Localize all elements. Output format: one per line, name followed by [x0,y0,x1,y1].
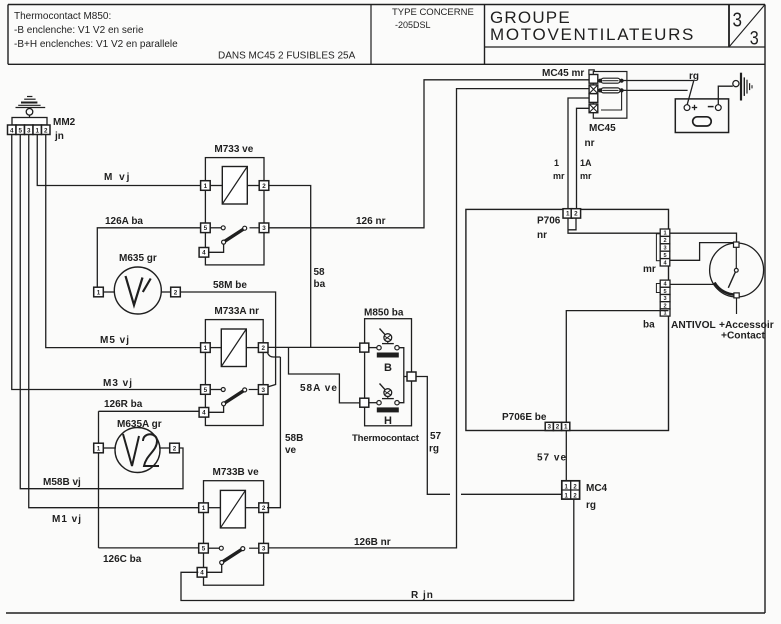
svg-text:1: 1 [204,345,208,352]
svg-text:2: 2 [574,211,578,218]
svg-text:2: 2 [174,289,178,296]
svg-text:R jn: R jn [411,590,434,601]
wire ba strip to antivol rotor [670,283,716,285]
svg-text:M850 ba: M850 ba [364,308,404,319]
relay M733 coil [222,167,247,205]
title GROUPE MOTOVENTILATEURS [485,46,766,48]
connector MC4 [562,481,580,499]
motor V1 symbol text [126,276,143,305]
relay M733 outline [205,158,264,265]
wire 58B ve (M733A.2 to M733B.2) [268,353,281,357]
battery cell oval [693,117,712,126]
thermocontact internal right bus [399,348,404,403]
svg-text:1: 1 [564,424,568,431]
relay M733 pin 4 [199,248,209,258]
svg-text:58: 58 [314,267,326,278]
ground (battery) [733,81,739,87]
svg-text:ANTIVOL: ANTIVOL [671,320,716,331]
wire 126B nr (M733B.3 up to MC45 fuse 2) [268,89,589,548]
connector strip mr (1 2 3 5 4) [656,234,660,261]
antivol stem [735,247,737,268]
antivol center pivot [734,268,738,272]
antivol rotor arm [728,272,735,288]
battery [675,99,728,133]
svg-text:57: 57 [430,431,442,442]
svg-text:B: B [384,362,392,374]
thermocontact B contacts [369,347,377,349]
svg-text:nr: nr [585,138,595,149]
svg-text:1: 1 [97,289,101,296]
fuse box MC45 [593,72,627,119]
svg-text:3: 3 [750,29,759,50]
svg-text:3: 3 [27,127,31,134]
svg-text:126 nr: 126 nr [356,216,386,227]
svg-text:58M be: 58M be [213,280,247,291]
svg-text:M3 vj: M3 vj [103,378,133,389]
ignition switch ANTIVOL circle [710,243,764,297]
svg-text:126R ba: 126R ba [104,399,143,410]
svg-text:126C ba: 126C ba [103,554,142,565]
antivol top contact [734,242,740,247]
svg-text:2: 2 [556,424,560,431]
svg-text:jn: jn [54,131,64,142]
svg-text:+Accessoir: +Accessoir [719,320,774,331]
svg-text:+Contact: +Contact [721,331,765,342]
antivol bottom contact [734,293,739,298]
svg-text:4: 4 [202,250,206,257]
wire mr.4 to antivol contact [670,243,734,261]
svg-text:4: 4 [200,570,204,577]
svg-text:1: 1 [664,311,667,317]
svg-text:4: 4 [202,410,206,417]
svg-text:MOTOVENTILATEURS: MOTOVENTILATEURS [490,25,695,44]
wire battery - to ground [718,86,733,105]
junction box P706 outline [466,209,669,430]
wire 57 ve (P706E.1 to MC4) [565,431,567,481]
svg-text:mr: mr [643,264,656,275]
wire M1 vj (MM2.3 to M733B.1) [29,135,199,508]
relay M733A pin 4 [199,408,209,418]
wire fuse F2 to battery + [622,89,688,91]
relay M733 internal coil wires [210,185,222,187]
svg-text:2: 2 [262,505,266,512]
relay M733 pin 2 [259,181,269,191]
wire M vj (MM2.1 to M733.1) [37,135,200,186]
svg-text:-B+H enclenches: V1 V2 en para: -B+H enclenches: V1 V2 en parallele [14,39,178,50]
relay M733B pin 1 [199,503,209,513]
relay M733 pin4 link [208,244,223,252]
wire 58M be (M635.2 to M733A.3) [180,292,275,387]
wire 126A ba (M635.1 to M733.5) [97,228,200,287]
relay M733 pin 1 [201,181,211,191]
header divider lines [370,5,372,65]
wire 58 ba (M733.2 down to thermocontact B row) [269,186,311,348]
svg-text:3: 3 [261,387,265,394]
wire R jn (M733B.4 to MC4 bottom) [181,499,574,600]
svg-text:rg: rg [586,500,596,511]
fuse F1 25A [601,78,620,83]
relay M733B pin 2 [259,503,269,513]
wire M5 vj (MM2.2 to M733A.1) [46,135,201,348]
svg-text:TYPE CONCERNE: TYPE CONCERNE [392,7,474,18]
relay M733 pin 3 [259,223,269,233]
svg-text:P706E be: P706E be [502,412,547,423]
svg-text:1: 1 [202,505,206,512]
wire fuse F1 to battery + [622,80,694,82]
wire P706 to antivol strip mr [568,218,660,233]
fuse box internal link [601,90,622,110]
wire node M733A.2 to thermocontact B [268,346,360,348]
ground loop circle [26,109,33,116]
page number box 3/3 [728,5,730,48]
svg-text:3: 3 [548,424,552,431]
svg-text:M58B vj: M58B vj [43,477,81,488]
thermocontact right pin [407,372,416,381]
antivol bottom contact lead [736,298,738,314]
wire 126C ba (to M733B.5) [99,547,201,549]
svg-text:M635 gr: M635 gr [119,253,157,264]
svg-text:126B nr: 126B nr [354,537,391,548]
motor M635 pin 2 [161,291,170,293]
svg-text:rg: rg [429,444,439,455]
svg-text:2: 2 [173,445,177,452]
svg-text:1: 1 [204,183,208,190]
relay M733A outline [205,320,263,426]
relay M733B outline [204,481,264,586]
svg-text:ba: ba [643,320,655,331]
svg-text:1: 1 [35,127,39,134]
svg-text:57 ve: 57 ve [537,453,567,464]
svg-text:3: 3 [733,10,743,32]
wire M58B vj (MM2.5 to M635A.2) [20,135,183,489]
relay M733A pin 1 [201,343,211,353]
svg-text:-B enclenche: V1 V2 en serie: -B enclenche: V1 V2 en serie [14,25,144,36]
relay M733B pin 3 [259,543,269,553]
motor M635 pin 1 [104,291,115,293]
svg-text:DANS MC45 2 FUSIBLES 25A: DANS MC45 2 FUSIBLES 25A [218,51,356,62]
svg-text:5: 5 [202,546,206,553]
connector MC45 pin column [589,75,598,84]
wire mr.1 to antivol contact [670,233,737,242]
fuse F2 25A [601,88,620,93]
wire 1 mr (MC45.3 to P706.1) [568,98,589,209]
relay M733A pin 2 [258,343,268,353]
relay M733B pin 4 [197,568,207,578]
svg-text:M1 vj: M1 vj [52,514,82,525]
relay M733A pin 5 [201,385,211,395]
svg-text:1: 1 [566,211,570,218]
svg-text:58A ve: 58A ve [300,383,338,394]
motor V2 symbol text [123,434,139,466]
svg-text:M733 ve: M733 ve [214,144,253,155]
relay M733B switch arm [222,549,243,562]
svg-text:4: 4 [10,127,14,134]
wire 1A mr (MC45.4 to P706.2) [577,108,590,208]
connector strip ba (4 5 3 2 1) [656,284,660,293]
svg-text:1A: 1A [580,158,592,168]
svg-text:1: 1 [97,445,101,452]
relay M733B coil [220,490,245,528]
relay M733A internal coil wires [210,347,221,349]
svg-text:M635A gr: M635A gr [117,419,162,430]
svg-text:mr: mr [553,171,565,181]
svg-text:MM2: MM2 [53,117,76,128]
ground (chassis) above MM2 [27,96,32,98]
thermocontact H bar [377,408,398,412]
svg-text:M733A nr: M733A nr [214,306,259,317]
svg-text:3: 3 [262,546,266,553]
thermocontact H bimetal [380,384,386,390]
svg-text:58B: 58B [285,433,303,444]
wire P706E.1 internal to ba strip [566,311,668,423]
svg-text:-205DSL: -205DSL [395,20,431,30]
wire 126 nr (M733.3 up to MC45 fuse 1) [269,80,589,228]
wire 58A ve (junction to thermocontact H) [289,347,360,403]
svg-text:H: H [384,415,392,427]
relay M733A pin 3 [258,385,268,395]
wire 126R ba (M733A.4 junction) / 126C ba vertical through M635A.1 [98,411,100,548]
svg-text:nr: nr [537,230,547,241]
svg-text:ve: ve [285,445,297,456]
svg-text:5: 5 [204,387,208,394]
svg-text:5: 5 [18,127,22,134]
svg-text:P706: P706 [537,216,561,227]
motor M635A pin 1 [104,447,116,449]
svg-text:MC45: MC45 [589,123,616,134]
relay M733 pin 5 [201,223,211,233]
relay M733 switch arm [224,229,245,242]
svg-text:126A ba: 126A ba [105,216,143,227]
wire 57 rg (thermocontact to MC4) [416,377,450,495]
outer frame [8,4,765,6]
svg-text:2: 2 [261,345,265,352]
svg-text:3: 3 [262,225,266,232]
thermocontact left pin H [360,398,369,407]
connector MM2 pin row (4 5 3 1 2) [8,125,17,135]
svg-text:ba: ba [314,279,326,290]
relay M733A pin4 link [208,406,223,413]
relay M733A switch arm [224,390,245,403]
relay M733B internal coil wires [208,507,220,509]
relay M733A switch contact [210,389,221,391]
wire M3 vj (MM2.4 to M733A.5) [12,135,201,390]
thermocontact B bar [377,353,398,357]
svg-text:Thermocontact M850:: Thermocontact M850: [14,11,111,22]
relay M733B pin4 link [207,565,222,573]
svg-text:mr: mr [580,171,592,181]
thermocontact B bimetal [380,329,386,335]
svg-text:Thermocontact: Thermocontact [352,433,420,444]
relay M733B switch contact [208,547,219,549]
thermocontact H contacts [369,402,377,404]
relay M733A coil [221,329,246,367]
relay M733B pin 5 [199,543,209,553]
svg-text:MC45 mr: MC45 mr [542,68,584,79]
thermocontact left pin B [360,343,369,352]
svg-text:1: 1 [554,158,559,168]
svg-text:M vj: M vj [104,172,131,183]
svg-text:5: 5 [204,225,208,232]
svg-text:MC4: MC4 [586,483,608,494]
svg-text:M733B ve: M733B ve [213,467,260,478]
antivol rotor arc [715,283,737,295]
battery feed diagonal [687,81,694,105]
svg-text:2: 2 [44,127,48,134]
relay M733 switch contact [210,227,221,229]
svg-text:M5 vj: M5 vj [100,335,130,346]
motor M635A pin 2 [160,447,169,449]
connector MM2 housing [12,118,47,126]
svg-text:2: 2 [262,183,266,190]
